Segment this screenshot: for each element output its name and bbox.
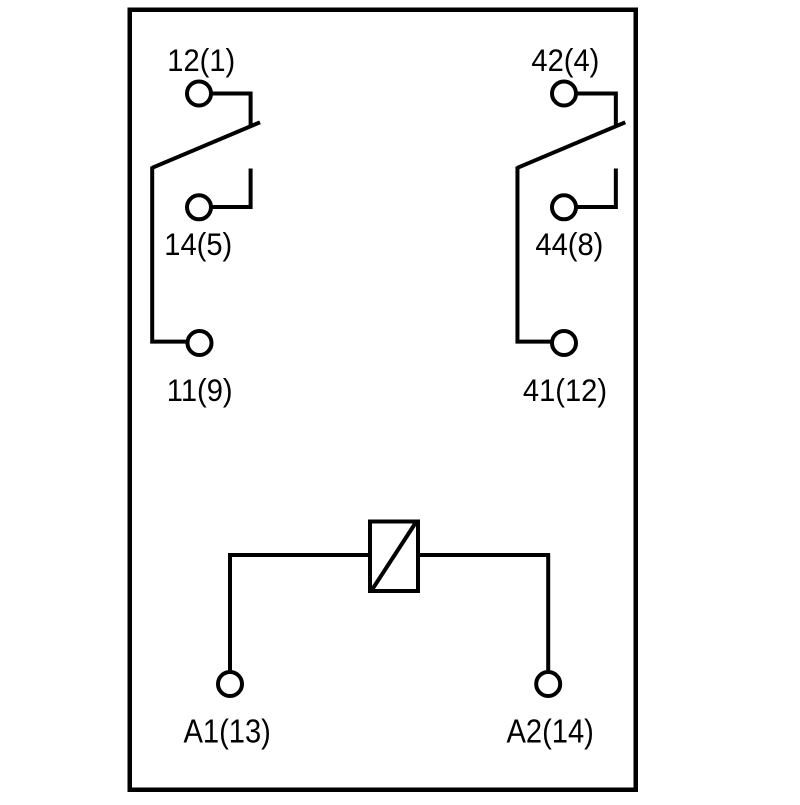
svg-text:14(5): 14(5)	[164, 228, 232, 262]
svg-text:12(1): 12(1)	[167, 44, 235, 78]
svg-text:41(12): 41(12)	[523, 374, 607, 408]
svg-text:A1(13): A1(13)	[184, 713, 271, 750]
svg-text:11(9): 11(9)	[167, 374, 233, 408]
svg-text:A2(14): A2(14)	[507, 713, 594, 750]
svg-text:44(8): 44(8)	[535, 228, 603, 262]
svg-text:42(4): 42(4)	[531, 44, 599, 78]
